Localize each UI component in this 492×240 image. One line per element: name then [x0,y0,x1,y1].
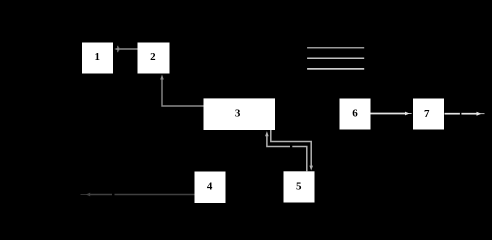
svg-text:1: 1 [94,51,100,63]
svg-text:4: 4 [207,181,213,193]
svg-text:5: 5 [296,181,302,193]
svg-text:2: 2 [150,51,156,63]
svg-text:6: 6 [352,108,358,120]
svg-text:7: 7 [424,108,430,120]
svg-text:3: 3 [235,108,241,120]
